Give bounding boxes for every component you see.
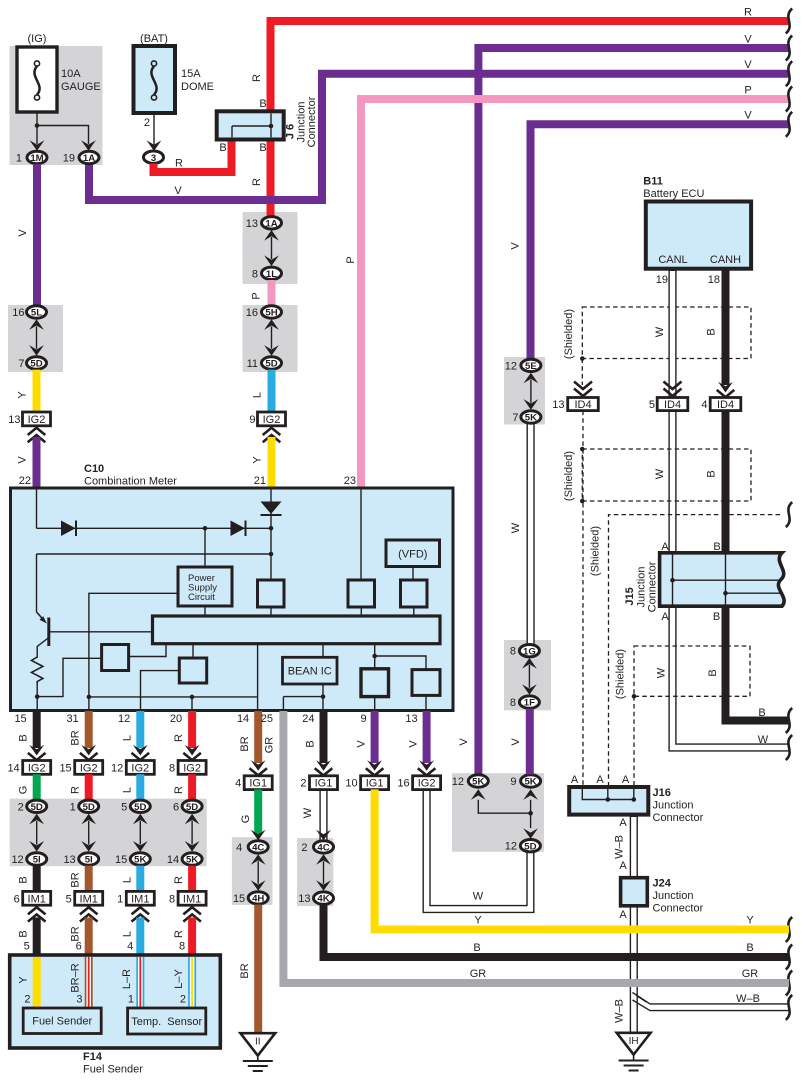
svg-text:W–B: W–B [736, 993, 760, 1005]
svg-text:4: 4 [235, 778, 241, 790]
svg-text:11: 11 [247, 358, 258, 370]
svg-text:IH: IH [629, 1036, 639, 1047]
svg-text:Y: Y [746, 915, 754, 927]
junction connector J16 [569, 787, 648, 815]
junction block 8 IM1 [169, 891, 206, 905]
square E to pin 13 [425, 695, 427, 709]
fuse (BAT) 15A DOME [134, 33, 215, 113]
svg-text:P: P [345, 256, 357, 263]
svg-text:V: V [744, 59, 752, 71]
double arrow 4C-4K [251, 854, 266, 891]
svg-text:9: 9 [510, 776, 516, 788]
svg-text:13: 13 [405, 713, 417, 725]
fuse (IG) 10A GAUGE [17, 33, 101, 112]
double arrow 1G-1F [522, 658, 537, 695]
chevrons below IM1 [183, 907, 201, 921]
grey shade box connectors 1A/1L [243, 212, 298, 284]
svg-text:GR: GR [264, 737, 276, 754]
svg-text:5D: 5D [524, 841, 536, 852]
svg-text:6: 6 [14, 893, 20, 905]
svg-text:W: W [758, 734, 769, 746]
wire P from 1L to 5H [268, 280, 276, 305]
svg-text:2: 2 [144, 117, 150, 129]
svg-text:13: 13 [63, 854, 75, 866]
svg-text:IG2: IG2 [28, 414, 46, 426]
svg-text:F14: F14 [83, 1051, 103, 1063]
svg-text:A: A [619, 860, 627, 872]
chevrons below IG2 [263, 428, 281, 442]
wire R IG2 to 5D [85, 774, 93, 800]
wire BR to IM1 [85, 866, 93, 892]
svg-text:L: L [252, 392, 264, 398]
wire B from 4K to right edge [324, 905, 790, 958]
pin20 stub [191, 697, 193, 709]
svg-text:8: 8 [169, 762, 175, 774]
connector 4 (4C) [236, 841, 268, 854]
svg-text:L: L [121, 877, 133, 883]
Power Supply Circuit box [178, 567, 232, 606]
svg-text:10A: 10A [61, 68, 81, 80]
svg-text:4: 4 [701, 399, 707, 411]
arrow up into 12 5K [471, 789, 486, 800]
svg-text:8: 8 [510, 697, 516, 709]
svg-text:5D: 5D [83, 802, 95, 813]
svg-text:W: W [473, 891, 484, 903]
svg-text:(Shielded): (Shielded) [563, 451, 575, 501]
svg-text:J15: J15 [624, 587, 636, 605]
square S2 to bus [192, 644, 194, 658]
svg-text:Connector: Connector [647, 561, 659, 612]
internal line 1 with diodes [37, 527, 272, 529]
svg-text:8: 8 [510, 646, 516, 658]
svg-text:14: 14 [7, 762, 19, 774]
svg-text:BR: BR [70, 926, 82, 941]
entry arrow into IG1 [249, 760, 267, 775]
wire from BAT fuse pin 2 to connector 3 [144, 113, 162, 151]
connector 13 (5I) [63, 853, 98, 866]
svg-text:V: V [510, 738, 522, 746]
svg-text:5I: 5I [33, 855, 41, 866]
svg-text:B: B [18, 930, 30, 937]
rail B pins 31-20-14 [89, 696, 258, 698]
double arrow 5L-5D [29, 319, 44, 355]
svg-text:(Shielded): (Shielded) [615, 649, 627, 699]
connector 14 (5K) [167, 853, 202, 866]
svg-text:5D: 5D [134, 802, 146, 813]
svg-text:2: 2 [18, 801, 24, 813]
svg-text:P: P [744, 85, 751, 97]
svg-text:7: 7 [18, 358, 24, 370]
connector 7 (5D) [18, 357, 46, 370]
svg-text:15: 15 [59, 762, 71, 774]
svg-text:16: 16 [12, 307, 24, 319]
node dot line1/PSC [203, 526, 208, 531]
transistor Q1 [37, 554, 49, 658]
svg-text:Battery ECU: Battery ECU [643, 188, 704, 200]
svg-text:8: 8 [179, 941, 185, 953]
wires from IG fuse to pins 1M and 1A [30, 112, 96, 151]
svg-text:12: 12 [111, 762, 123, 774]
junction block 9 IG2 [249, 412, 285, 426]
svg-text:(BAT): (BAT) [140, 33, 168, 45]
svg-text:B: B [707, 669, 719, 676]
wire pin14 internal to bus [257, 644, 259, 709]
svg-text:Junction: Junction [653, 890, 694, 902]
svg-text:19: 19 [63, 153, 75, 165]
svg-text:Y: Y [252, 456, 264, 464]
svg-text:DOME: DOME [181, 81, 214, 93]
svg-text:W: W [654, 326, 666, 337]
connector 11 (5D) [247, 357, 282, 370]
svg-text:12: 12 [452, 776, 464, 788]
svg-text:13: 13 [298, 893, 310, 905]
svg-text:V: V [356, 740, 368, 748]
svg-text:1: 1 [117, 893, 123, 905]
crossing repaint Y/B/GR over W-B [280, 930, 789, 984]
wire pin31 internal [89, 593, 178, 709]
svg-text:B: B [18, 876, 30, 883]
svg-text:B: B [305, 740, 317, 747]
svg-text:A: A [619, 817, 627, 829]
svg-text:R: R [70, 786, 82, 794]
wire W from 5K to 1G [526, 416, 534, 650]
Temp Sensor inner box [128, 1008, 206, 1034]
Fuel Sender inner box [23, 1008, 101, 1034]
svg-text:V: V [174, 185, 182, 197]
svg-text:V: V [744, 110, 752, 122]
svg-text:Combination Meter: Combination Meter [84, 476, 177, 488]
wire L from 5D to IG2 [268, 370, 276, 412]
wire pin23 internal [360, 489, 362, 580]
wire GR from pin 25 to right edge [283, 711, 789, 983]
svg-text:B: B [259, 98, 266, 110]
connector 12 (5E) [505, 359, 541, 372]
column pin 24: wire B [320, 711, 328, 763]
svg-text:15: 15 [14, 713, 26, 725]
svg-text:(VFD): (VFD) [398, 549, 427, 561]
svg-text:21: 21 [254, 475, 266, 487]
svg-text:1L: 1L [266, 269, 277, 280]
wire B to IM1 [33, 866, 41, 892]
BEAN IC to pins 24/25 [322, 684, 324, 709]
ECU box B11 [646, 202, 751, 269]
svg-text:2: 2 [24, 994, 30, 1006]
wire to Power Supply Circuit [204, 528, 206, 567]
bus bar [153, 616, 441, 644]
square D to pin 9 [374, 697, 376, 709]
wire W IG1 to 4C [319, 782, 327, 843]
svg-text:Temp. Sensor: Temp. Sensor [131, 1016, 202, 1028]
svg-text:14: 14 [237, 713, 249, 725]
svg-text:L: L [121, 787, 133, 793]
svg-text:CANH: CANH [710, 254, 741, 266]
svg-text:L: L [121, 931, 133, 937]
striped wire L-Y inside F14 [188, 957, 196, 1008]
svg-text:IG2: IG2 [183, 762, 201, 774]
grey shade box behind IG fuse [10, 46, 103, 165]
svg-text:IG2: IG2 [263, 414, 281, 426]
svg-text:R: R [173, 734, 185, 742]
svg-text:10: 10 [345, 778, 357, 790]
chevrons below IM1 [132, 907, 150, 921]
column pin 31: wire BR [85, 711, 93, 748]
column pin 15: wire B [33, 711, 41, 748]
wire pin22 internal down [36, 489, 38, 528]
svg-text:GAUGE: GAUGE [61, 81, 101, 93]
svg-text:BEAN IC: BEAN IC [288, 666, 332, 678]
connector 2 (5D) [18, 800, 47, 813]
svg-text:B: B [219, 142, 226, 154]
wire BR to ground II [254, 905, 262, 1034]
square C [401, 580, 428, 607]
connector 16 (5H) [246, 306, 282, 319]
svg-text:3: 3 [151, 153, 156, 164]
square A [258, 580, 285, 607]
svg-text:R: R [251, 74, 263, 82]
svg-text:5D: 5D [186, 802, 198, 813]
wire W CANL [673, 268, 792, 748]
svg-text:1: 1 [16, 153, 22, 165]
svg-text:Connector: Connector [653, 812, 704, 824]
svg-text:Connector: Connector [653, 903, 704, 915]
double arrow [133, 814, 148, 852]
svg-text:5K: 5K [186, 855, 198, 866]
diode D1 [61, 521, 76, 537]
junction block 2 IG1 [300, 776, 337, 790]
chevrons below IM1 [80, 907, 98, 921]
svg-text:W: W [656, 667, 668, 678]
svg-text:BR: BR [239, 963, 251, 978]
wire L IG2 to 5D [136, 774, 144, 800]
svg-text:Fuel Sender: Fuel Sender [32, 1016, 92, 1028]
grey shade box connectors 5K/5K/5D [452, 773, 544, 852]
svg-text:IG1: IG1 [315, 778, 333, 790]
svg-text:12: 12 [505, 841, 517, 853]
J15 internal taps [670, 578, 781, 596]
svg-text:9: 9 [249, 414, 255, 426]
connector 16 (5L) [12, 306, 46, 319]
junction block 8 IG2 [169, 761, 206, 775]
svg-text:15A: 15A [181, 68, 201, 80]
svg-text:16: 16 [246, 307, 258, 319]
svg-text:1M: 1M [30, 153, 43, 164]
square D [361, 669, 389, 697]
grey shade box connectors 5D/5I/5K row [10, 799, 207, 867]
wire R top horizontal [271, 21, 790, 216]
svg-text:A: A [596, 774, 604, 786]
shielded region around J15 [609, 515, 781, 787]
svg-text:4K: 4K [317, 894, 329, 905]
svg-text:IG2: IG2 [131, 762, 149, 774]
junction connector J15 [660, 553, 785, 606]
svg-text:14: 14 [167, 854, 179, 866]
shield drain dashed below 13 ID4 [582, 411, 584, 787]
svg-text:3: 3 [76, 994, 82, 1006]
svg-text:V: V [458, 738, 470, 746]
svg-text:4: 4 [127, 941, 133, 953]
svg-text:L–R: L–R [121, 969, 133, 989]
svg-text:1: 1 [128, 994, 134, 1006]
column pin 20: wire R [188, 711, 196, 748]
svg-text:13: 13 [8, 414, 20, 426]
square E [412, 670, 440, 696]
svg-text:12: 12 [118, 713, 130, 725]
svg-text:5: 5 [121, 801, 127, 813]
junction block 16 IG2 [397, 776, 440, 790]
svg-text:4C: 4C [317, 843, 329, 854]
svg-text:5L: 5L [31, 308, 42, 319]
connector 13 (4K) [298, 892, 333, 905]
connector 15 (4H) [233, 892, 268, 905]
shield drain dashed to 13 ID4 [581, 359, 583, 386]
svg-text:IG2: IG2 [80, 762, 98, 774]
double arrow 5E-5K [524, 373, 539, 410]
svg-text:A: A [622, 774, 630, 786]
svg-text:Junction: Junction [653, 800, 694, 812]
svg-text:2: 2 [300, 778, 306, 790]
square S2 [179, 658, 206, 683]
connector 7 (5K) [512, 411, 541, 424]
connector 12 (5K) [452, 775, 489, 788]
svg-text:IM1: IM1 [131, 893, 149, 905]
PSC to bus [204, 606, 206, 616]
svg-text:25: 25 [261, 713, 273, 725]
svg-text:B: B [473, 942, 480, 954]
shield drain dashed to J16 [633, 696, 635, 787]
wire G IG1 to 4C [254, 789, 262, 834]
svg-text:8: 8 [252, 268, 258, 280]
svg-text:B11: B11 [643, 176, 663, 188]
svg-text:J16: J16 [653, 787, 671, 799]
grey shade box connectors 5E/5K [504, 357, 545, 425]
svg-text:5D: 5D [265, 359, 277, 370]
svg-text:IG2: IG2 [28, 762, 46, 774]
svg-text:1G: 1G [523, 646, 536, 657]
svg-text:5: 5 [24, 941, 30, 953]
svg-text:1F: 1F [524, 698, 535, 709]
svg-text:4: 4 [236, 842, 242, 854]
svg-text:IM1: IM1 [28, 893, 46, 905]
svg-text:4C: 4C [252, 843, 264, 854]
double arrow [81, 814, 96, 852]
column pin 13: wire V [423, 711, 431, 763]
chevrons below IM1 [28, 907, 46, 921]
junction connector J6 [217, 111, 284, 139]
grey shade box connectors 4C/4K col24 [297, 838, 333, 906]
svg-text:12: 12 [11, 854, 23, 866]
svg-text:Y: Y [17, 391, 29, 399]
svg-text:(IG): (IG) [28, 33, 47, 45]
wire Y from 5D to IG2 [33, 370, 41, 412]
svg-text:II: II [255, 1037, 261, 1048]
internal line 2 [37, 553, 272, 555]
junction block 14 IG2 [7, 761, 50, 775]
double arrow [29, 814, 44, 852]
svg-text:19: 19 [656, 274, 668, 286]
svg-text:W–B: W–B [614, 835, 626, 859]
grey shade box connectors 5H/5D [243, 305, 298, 372]
svg-text:5I: 5I [85, 855, 93, 866]
svg-text:G: G [18, 786, 30, 795]
grey shade box connectors 5L/5D [8, 305, 63, 372]
svg-text:W: W [654, 468, 666, 479]
chevrons below IG2 [28, 428, 46, 442]
svg-text:6: 6 [173, 801, 179, 813]
svg-text:(Shielded): (Shielded) [563, 309, 575, 359]
ECU box C10 [11, 488, 454, 711]
svg-text:G: G [240, 815, 252, 824]
svg-text:W–B: W–B [614, 999, 626, 1023]
wire resistor to rail [36, 684, 38, 710]
svg-text:ID4: ID4 [574, 399, 591, 411]
junction block 13 IG2 [8, 412, 50, 426]
svg-text:5D: 5D [31, 802, 43, 813]
double arrow 4C-4K [316, 854, 331, 891]
connector 2 (4C) [301, 841, 333, 854]
column pin 14: wire BR [254, 711, 262, 763]
svg-text:R: R [744, 7, 752, 19]
svg-text:V: V [408, 740, 420, 748]
svg-text:CANL: CANL [658, 254, 687, 266]
svg-text:BR: BR [239, 736, 251, 751]
entry arrow into 4 ID4 [717, 382, 735, 397]
svg-text:R: R [173, 930, 185, 938]
svg-text:(Shielded): (Shielded) [590, 526, 602, 576]
svg-text:23: 23 [344, 475, 356, 487]
wire L to F14 pin 4 [136, 918, 144, 957]
junction block 5 ID4 [649, 398, 688, 412]
rail A to square 1 [37, 658, 101, 696]
svg-text:IG1: IG1 [366, 778, 384, 790]
junction block 13 ID4 [552, 398, 598, 412]
wire R to IM1 [188, 866, 196, 892]
svg-text:W: W [302, 807, 314, 818]
junction wires between 5K and 5D [478, 800, 530, 813]
svg-text:B: B [18, 734, 30, 741]
wire W-B from J16 to ground IH [630, 813, 638, 1032]
svg-text:24: 24 [302, 713, 314, 725]
svg-text:A: A [661, 611, 669, 623]
wire B to F14 pin 5 [33, 918, 41, 957]
svg-text:15: 15 [233, 893, 245, 905]
svg-text:IM1: IM1 [183, 893, 201, 905]
ground IH [617, 1033, 651, 1071]
entry arrow into IG2 col 31 [80, 745, 98, 760]
junction connector J24 [621, 878, 648, 906]
svg-text:6: 6 [76, 941, 82, 953]
wire pin12 internal to square S2 [141, 671, 180, 709]
junction block 10 IG1 [345, 776, 388, 790]
square A to bus [270, 607, 272, 616]
junction block 4 IG1 [235, 776, 272, 790]
svg-text:B: B [259, 142, 266, 154]
double arrow [185, 814, 200, 852]
connector 6 (5D) [173, 800, 202, 813]
svg-text:B: B [758, 707, 765, 719]
svg-text:C10: C10 [84, 463, 104, 475]
svg-text:5K: 5K [134, 855, 146, 866]
W-B branch to right [633, 993, 790, 1011]
svg-text:2: 2 [180, 994, 186, 1006]
svg-text:5H: 5H [265, 308, 277, 319]
junction block 5 IM1 [66, 891, 103, 905]
svg-text:GR: GR [470, 968, 487, 980]
striped wire Y inside F14 [33, 957, 41, 1008]
svg-text:16: 16 [397, 778, 409, 790]
square B [348, 580, 375, 607]
svg-text:W: W [510, 522, 522, 533]
square S1 [102, 645, 129, 671]
